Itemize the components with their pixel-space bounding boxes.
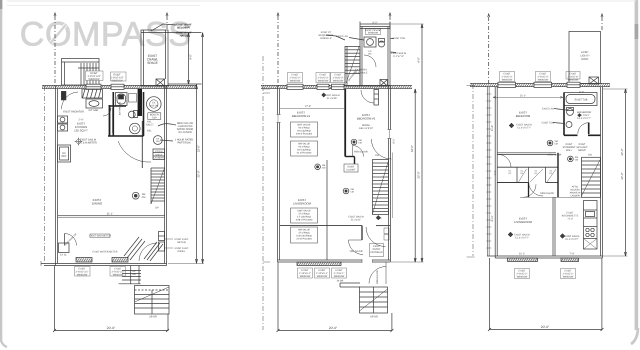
- bathroom toilet: [128, 111, 137, 118]
- svg-text:8'-10": 8'-10": [491, 215, 494, 221]
- svg-text:71 sf: 71 sf: [567, 218, 573, 221]
- livingroom divider p3: [520, 197, 582, 256]
- svg-text:0.45 Clfd Reqd: 0.45 Clfd Reqd: [296, 235, 312, 238]
- svg-text:UP: UP: [155, 207, 159, 210]
- closet door leaf p2: [352, 146, 354, 157]
- smoke detector living: [343, 188, 349, 194]
- window sill p3 b: [561, 258, 579, 262]
- svg-text:8'-10": 8'-10": [491, 125, 494, 131]
- gas meter circle dining: [132, 192, 139, 199]
- svg-text:METER: METER: [177, 241, 186, 244]
- leader tub label: [391, 39, 397, 53]
- west wall p3: [495, 87, 497, 258]
- svg-text:24 sf Provided: 24 sf Provided: [297, 152, 312, 155]
- svg-text:CM: CM: [358, 142, 362, 145]
- svg-text:20'-0": 20'-0": [107, 326, 116, 330]
- svg-text:BELOW PT: BELOW PT: [177, 27, 191, 30]
- svg-text:21'-1": 21'-1": [520, 94, 526, 97]
- svg-text:RISER LP: RISER LP: [321, 37, 332, 40]
- bathroom tub: [116, 93, 128, 106]
- svg-text:W LOUVER: W LOUVER: [178, 131, 192, 134]
- svg-text:EXIST TOIL: EXIST TOIL: [542, 122, 555, 125]
- unit value box 1: [291, 122, 318, 137]
- stair top door arc p2: [371, 139, 391, 159]
- leader lav p3: [554, 109, 566, 111]
- svg-text:REM 2x6 DR: REM 2x6 DR: [376, 270, 379, 284]
- svg-text:SHELF: SHELF: [155, 153, 163, 156]
- window label boxes p1 bottom: [75, 267, 126, 277]
- closet top right p2: [374, 90, 379, 106]
- svg-text:PARTITION: PARTITION: [177, 142, 190, 145]
- svg-text:27 sf Reqd: 27 sf Reqd: [298, 232, 310, 235]
- washroom corridor walls: [110, 105, 113, 136]
- bottom dim p3: [488, 258, 604, 331]
- refrigerator cabinet: [58, 145, 71, 162]
- door arc front center: [139, 243, 157, 261]
- svg-text:ROOF: ROOF: [581, 58, 589, 61]
- entry door arc bottom: [369, 267, 386, 284]
- svg-text:WINDOW: WINDOW: [77, 274, 88, 277]
- closet row walls p3: [497, 167, 558, 182]
- property line left dashed p3: [488, 17, 490, 84]
- unit value box living: [291, 208, 318, 223]
- svg-text:ABOVE: ABOVE: [578, 149, 586, 152]
- svg-text:WINDOW: WINDOW: [368, 32, 379, 35]
- svg-text:WINDOW: WINDOW: [502, 79, 513, 82]
- svg-text:DR: DR: [132, 273, 136, 276]
- svg-text:94 sf Reqd: 94 sf Reqd: [298, 127, 310, 130]
- svg-text:138.1 sf 9'10": 138.1 sf 9'10": [359, 127, 374, 130]
- svg-text:ABOVE W: ABOVE W: [570, 192, 582, 195]
- stoop walk lines p2: [340, 283, 360, 287]
- svg-text:REL: REL: [147, 130, 152, 133]
- window label boxes p2 bottom: [298, 268, 347, 278]
- svg-text:21'-1": 21'-1": [107, 213, 114, 216]
- svg-text:26 DR: 26 DR: [337, 280, 344, 283]
- bathroom door leaf p3: [588, 123, 590, 135]
- window W2 in party wall: [111, 84, 124, 89]
- kitchen entry door jamb: [61, 91, 66, 100]
- living door arc p3: [523, 184, 536, 197]
- dim ladder p3: [486, 87, 491, 256]
- entry wall horizontal p2: [280, 225, 362, 227]
- dim line 17-6: [280, 108, 344, 110]
- laundry partition wall: [141, 121, 143, 168]
- bathroom shelf: [129, 94, 137, 103]
- svg-text:CM: CM: [554, 143, 558, 146]
- svg-text:27 sf Reqd: 27 sf Reqd: [298, 213, 310, 216]
- window sill west p1: [76, 258, 92, 263]
- svg-text:32'-0": 32'-0": [197, 145, 201, 152]
- property line right dashed: [166, 16, 168, 29]
- right page edge strip: [631, 0, 638, 344]
- property pin tick right: [166, 13, 168, 16]
- bathroom door arc p3: [578, 123, 589, 134]
- svg-text:EL 2'x3'6": EL 2'x3'6": [327, 97, 338, 100]
- svg-text:BEDROOM #2: BEDROOM #2: [357, 117, 376, 121]
- gas meter symbol kitchen: [75, 138, 83, 146]
- window W1 in party wall: [86, 84, 101, 89]
- leader to roof notes: [151, 24, 176, 31]
- plan1 texts: [60, 24, 201, 330]
- gas diamond bedroom p3: [509, 123, 514, 128]
- svg-text:8-0 Clg Reqd: 8-0 Clg Reqd: [297, 149, 311, 152]
- plan2 texts: [290, 22, 421, 330]
- left page edge strip: [0, 0, 7, 347]
- svg-text:32'-0": 32'-0": [410, 145, 414, 152]
- window sill p3 a: [508, 258, 538, 262]
- gas diamond living p3: [508, 232, 513, 237]
- svg-text:EL 4'-2"x7'7": EL 4'-2"x7'7": [577, 117, 591, 120]
- svg-text:4'-0": 4'-0": [189, 54, 193, 60]
- svg-text:8-0 Clg Reqd: 8-0 Clg Reqd: [297, 130, 311, 133]
- gas symbol bedroom1: [322, 93, 326, 97]
- svg-text:BEDROOM: BEDROOM: [516, 114, 531, 118]
- east wall p2: [388, 86, 390, 262]
- kitchen entry door arc: [61, 92, 78, 109]
- svg-text:EXIST: EXIST: [566, 143, 573, 146]
- svg-text:32'-0": 32'-0": [197, 170, 201, 177]
- svg-text:94 sf Reqd: 94 sf Reqd: [298, 146, 310, 149]
- svg-text:DN: DN: [375, 154, 379, 157]
- svg-text:ATTIC: ATTIC: [572, 186, 579, 189]
- bathroom south wall p3: [564, 134, 601, 136]
- entry steps below front wall: [119, 266, 141, 284]
- svg-text:WC: WC: [368, 53, 372, 56]
- svg-text:249 sf Provided: 249 sf Provided: [296, 133, 313, 136]
- property line right dashed p3: [601, 17, 603, 32]
- east wall plan1: [165, 86, 167, 266]
- bathroom wing p2: [360, 27, 390, 87]
- stair extension p2: [345, 46, 360, 86]
- svg-text:EXIST RADIATOR: EXIST RADIATOR: [63, 111, 84, 114]
- dim 4'-0" right of crawl: [141, 33, 202, 85]
- svg-text:CM: CM: [575, 159, 579, 162]
- svg-text:AIR VALUE: AIR VALUE: [298, 143, 310, 146]
- washroom door arc: [103, 108, 111, 116]
- gas symbol living: [376, 215, 381, 220]
- svg-text:21'-1": 21'-1": [519, 253, 525, 256]
- svg-text:CLOSET: CLOSET: [346, 169, 356, 172]
- window sill band p2: [297, 262, 341, 266]
- svg-text:WINDOW: WINDOW: [290, 80, 301, 83]
- svg-text:WINDOW: WINDOW: [317, 275, 328, 278]
- bottom dim p2: [277, 262, 394, 332]
- attic stair p3: [582, 157, 601, 197]
- svg-text:STOCK: STOCK: [155, 150, 163, 153]
- exist closet box p2: [344, 164, 358, 172]
- svg-text:TOP: TOP: [152, 117, 157, 120]
- window W1 p3: [498, 82, 516, 87]
- svg-text:WH: WH: [156, 140, 160, 143]
- vestibule door leaf p2: [349, 239, 363, 241]
- hall door arc p3: [498, 154, 511, 167]
- vestibule door arc 1: [349, 240, 364, 255]
- svg-text:NEW 2x4 DR: NEW 2x4 DR: [548, 154, 562, 157]
- svg-text:8'-1": 8'-1": [393, 138, 396, 143]
- svg-text:EXIST WATER METER: EXIST WATER METER: [93, 251, 118, 254]
- radiator kitchen: [82, 89, 103, 98]
- bathroom gas diamond p3: [578, 113, 582, 117]
- bathroom north partition: [109, 105, 127, 107]
- hall closet door arc p3: [529, 183, 544, 197]
- svg-text:4'-6": 4'-6": [416, 57, 420, 63]
- left lot line p2: [262, 56, 264, 330]
- svg-text:ACCESS: ACCESS: [570, 189, 580, 192]
- bathroom door gap p3: [578, 134, 589, 137]
- svg-text:KIT SNK: KIT SNK: [89, 109, 99, 112]
- dining dim line: [58, 215, 165, 217]
- dim line below party wall p3: [493, 96, 563, 98]
- crawl space box: [141, 30, 168, 86]
- wing toilet: [379, 39, 385, 48]
- window label box p2 wing: [366, 29, 381, 35]
- svg-text:EXIST TUB: EXIST TUB: [575, 99, 588, 102]
- front wall p2: [278, 260, 391, 262]
- svg-text:8'-2": 8'-2": [373, 22, 378, 25]
- svg-text:UP DR: UP DR: [149, 316, 157, 319]
- vestibule wall jog p2: [361, 226, 363, 240]
- property line left dashed: [54, 16, 56, 86]
- svg-text:EXIST LAV: EXIST LAV: [336, 35, 348, 38]
- boiler circle: [147, 97, 162, 112]
- entry wall east segment p2: [376, 225, 390, 227]
- COMPASS watermark: [20, 16, 192, 54]
- wing sink: [364, 37, 376, 47]
- property line right dashed p2: [389, 16, 391, 31]
- vestibule door arc 2: [366, 227, 386, 247]
- hall wall vertical p2: [326, 160, 328, 260]
- window W3 p2: [332, 84, 345, 89]
- svg-text:REM 2x4 DR: REM 2x4 DR: [354, 150, 368, 153]
- svg-text:BLR DN: BLR DN: [149, 105, 158, 108]
- gas diamond kitchenette p3: [560, 234, 565, 239]
- svg-text:WINDOW: WINDOW: [112, 80, 124, 83]
- svg-text:WINDOW: WINDOW: [113, 274, 124, 277]
- closet L wall p2: [345, 157, 354, 165]
- svg-text:DINING: DINING: [92, 202, 103, 206]
- svg-text:EL 4'-2"x7'7": EL 4'-2"x7'7": [517, 127, 531, 130]
- svg-text:EXIST: EXIST: [579, 143, 586, 146]
- svg-text:STORMENT: STORMENT: [563, 146, 576, 149]
- bathroom sink: [130, 123, 141, 134]
- roof notes top right: [176, 24, 192, 38]
- svg-text:UNIT VALUE: UNIT VALUE: [297, 210, 311, 213]
- west wall plan1: [56, 86, 58, 266]
- svg-text:WINDOW: WINDOW: [334, 275, 345, 278]
- svg-text:VER 2x6 DR: VER 2x6 DR: [349, 250, 362, 253]
- entry door jamb boxes p2: [384, 228, 389, 240]
- svg-text:CM: CM: [350, 191, 354, 194]
- kitchen sink counter: [86, 99, 103, 108]
- svg-text:LIVINGROOM: LIVINGROOM: [514, 220, 533, 224]
- washer boxes left wall: [58, 116, 68, 131]
- entry vestibule label box p2: [370, 244, 384, 257]
- svg-text:8'-2": 8'-2": [579, 91, 584, 94]
- property pin tick left: [54, 13, 56, 16]
- svg-text:CM: CM: [142, 196, 146, 199]
- leader from stair to note: [326, 35, 345, 40]
- svg-text:LADDER: LADDER: [570, 195, 580, 198]
- leader toil p3: [553, 123, 565, 124]
- left lot line p3: [472, 84, 474, 256]
- kitchenette counter boxes p3: [584, 201, 598, 250]
- window label boxes p2 top: [288, 73, 346, 83]
- elec meter leaders: [165, 239, 173, 248]
- svg-text:EL 4'-2"x7'7": EL 4'-2"x7'7": [515, 237, 529, 240]
- terrace stair treads: [78, 63, 99, 85]
- leader lav: [349, 38, 364, 41]
- svg-text:UNIT VALUE:: UNIT VALUE:: [297, 124, 311, 127]
- svg-text:EXIST GAS METER: EXIST GAS METER: [89, 235, 111, 238]
- closet EX CL: [59, 243, 70, 253]
- svg-text:ENTRY: ENTRY: [373, 248, 381, 251]
- west wall p2: [278, 86, 280, 262]
- right dim 32 p2: [414, 89, 416, 262]
- closet door arc p2: [353, 146, 364, 157]
- svg-text:135 SQ FT: 135 SQ FT: [74, 129, 88, 133]
- cellar stair plan1: [151, 168, 165, 204]
- svg-text:REF: REF: [62, 155, 67, 158]
- svg-text:20'-0": 20'-0": [329, 326, 338, 330]
- svg-text:LIVINGROOM: LIVINGROOM: [293, 202, 312, 206]
- bathroom west wall: [112, 92, 114, 136]
- svg-text:EL 2'x4'1": EL 2'x4'1": [351, 219, 362, 222]
- svg-text:WINDOW: WINDOW: [89, 78, 101, 81]
- east wall p3: [601, 87, 603, 258]
- right dim lines plan1: [168, 33, 204, 264]
- svg-text:SPACE: SPACE: [147, 61, 158, 65]
- svg-text:WINDOW: WINDOW: [538, 79, 549, 82]
- window W2 p3: [534, 82, 552, 87]
- smoke detector bd2: [351, 139, 357, 145]
- window W2 p2: [317, 84, 329, 89]
- svg-text:SKYLIGHT: SKYLIGHT: [576, 146, 588, 149]
- svg-text:WINDOW: WINDOW: [300, 275, 311, 278]
- svg-text:EXIST: EXIST: [373, 245, 380, 248]
- svg-text:EL 4'-2"x7'7": EL 4'-2"x7'7": [566, 238, 579, 241]
- stoop stair box plan1: [135, 286, 170, 315]
- stock shelf boxes: [153, 149, 165, 160]
- svg-text:WALL: WALL: [566, 149, 573, 152]
- window label boxes p1 top: [86, 71, 127, 81]
- svg-text:EXIST: EXIST: [348, 166, 355, 169]
- svg-text:WINDOW: WINDOW: [318, 80, 329, 83]
- wing x-box: [380, 80, 388, 87]
- air value box living: [291, 227, 318, 243]
- west wall window gap p2: [277, 115, 281, 123]
- roof box p3: [569, 32, 601, 84]
- roof x-box: [589, 77, 599, 84]
- right dim 32 p3: [603, 89, 628, 256]
- laundry door arc: [118, 141, 151, 162]
- plan3 texts: [491, 51, 624, 329]
- bathroom east wall: [143, 92, 145, 136]
- left lot line lower: [43, 86, 45, 265]
- svg-text:EXIST GAS M: EXIST GAS M: [565, 235, 580, 238]
- svg-text:2.7 Clfd Reqd: 2.7 Clfd Reqd: [297, 216, 312, 219]
- party wall hatched band p2: [261, 85, 412, 88]
- window W1 p2: [287, 84, 303, 89]
- electric meter stack: [159, 232, 165, 252]
- svg-text:7'-0": 7'-0": [494, 170, 497, 175]
- svg-text:AIR VALUE: AIR VALUE: [298, 229, 310, 232]
- bathroom toilet p3: [566, 122, 572, 128]
- svg-text:EXIST LAV: EXIST LAV: [542, 108, 554, 111]
- hall wall p3: [497, 153, 556, 155]
- compass O slash: [51, 25, 66, 43]
- svg-text:TOILET: TOILET: [145, 124, 154, 127]
- svg-text:LAUNDRY: LAUNDRY: [154, 157, 165, 160]
- party wall hatched band p3: [470, 83, 610, 86]
- interior stoop stair diagonals: [124, 237, 145, 260]
- front door gap p2: [362, 259, 373, 262]
- svg-text:EX CL: EX CL: [60, 253, 68, 256]
- svg-text:DN: DN: [588, 154, 592, 157]
- front wall plan1: [41, 261, 167, 266]
- svg-text:4.08 sf Provided: 4.08 sf Provided: [296, 219, 313, 222]
- wing door arc: [364, 55, 376, 67]
- faint top rule lines: [7, 1, 636, 6]
- bathtub p3: [564, 93, 597, 106]
- water heater circle: [153, 136, 162, 145]
- svg-text:EXIST TOIL: EXIST TOIL: [393, 37, 406, 40]
- window label boxes p3 top: [500, 72, 581, 82]
- smoke detector p3 b: [568, 156, 574, 162]
- svg-text:UP: UP: [132, 270, 136, 273]
- svg-text:PANEL: PANEL: [178, 250, 186, 253]
- svg-text:2.9 sf Provided: 2.9 sf Provided: [296, 238, 312, 241]
- svg-text:BATHROOM: BATHROOM: [119, 102, 122, 115]
- front room door arc west: [65, 234, 77, 246]
- bottom dimension plan1: [53, 266, 169, 333]
- svg-text:UP DR: UP DR: [370, 316, 378, 319]
- svg-text:WINDOW: WINDOW: [563, 276, 574, 279]
- svg-text:32'-0": 32'-0": [620, 148, 624, 155]
- svg-text:CM: CM: [322, 167, 326, 170]
- right outer dim p2: [390, 24, 424, 262]
- svg-text:HATCH: HATCH: [180, 35, 189, 38]
- wing top dim: [360, 22, 390, 27]
- svg-text:4'-1"x7'-9": 4'-1"x7'-9": [393, 55, 404, 58]
- property line left dashed p2: [277, 16, 279, 86]
- stoop stair p2: [360, 287, 388, 313]
- crawl space access x-box: [156, 79, 165, 86]
- svg-text:20'-0": 20'-0": [541, 325, 550, 329]
- diagonal hatch front right: [144, 242, 163, 261]
- bathroom south wall: [108, 135, 144, 137]
- svg-text:BEDROOM #1: BEDROOM #1: [292, 114, 311, 118]
- air value box 1: [291, 141, 318, 156]
- laundry partition diagonal leader 2: [160, 140, 173, 141]
- smoke detector p3 a: [547, 140, 553, 146]
- window label boxes p3 bottom: [515, 269, 576, 279]
- svg-text:WINDOW: WINDOW: [517, 276, 528, 279]
- bedroom2 door arc: [361, 90, 374, 103]
- party wall hatched band plan1: [42, 85, 197, 88]
- svg-text:EL & M METER: EL & M METER: [79, 142, 97, 145]
- svg-text:32'-0": 32'-0": [620, 172, 624, 179]
- svg-text:VESTIBULE: VESTIBULE: [370, 251, 383, 254]
- hall jog wall p3: [528, 183, 530, 198]
- svg-text:WINDOW: WINDOW: [568, 79, 579, 82]
- closet doors p3: [519, 169, 557, 182]
- window W3 p3: [567, 82, 580, 87]
- bedroom divider wall p2: [344, 89, 346, 157]
- bathroom west wall p3: [563, 93, 565, 136]
- svg-text:UP: UP: [378, 217, 382, 220]
- bathroom wall poche: [138, 89, 142, 117]
